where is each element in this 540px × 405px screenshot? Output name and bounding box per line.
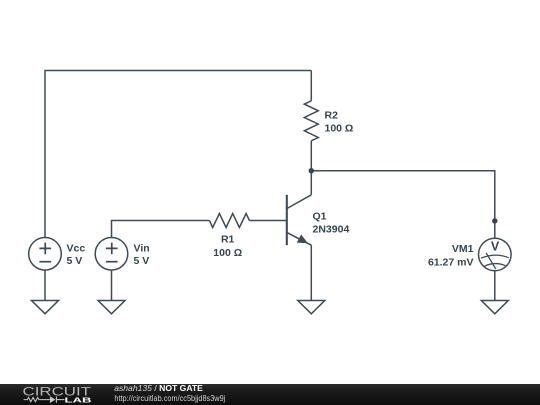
wire R1 to Q1 base	[249, 220, 286, 222]
node junction dot at collector/output	[309, 168, 314, 173]
resistor R2	[304, 101, 318, 141]
svg-text:5 V: 5 V	[67, 255, 83, 267]
wire output node to voltmeter	[311, 171, 495, 238]
ground (emitter)	[298, 301, 325, 314]
wire Vin bottom lead	[111, 270, 113, 300]
svg-text:VM1: VM1	[452, 243, 474, 255]
wire VM1 bottom lead	[494, 271, 496, 301]
wire Vin top lead	[112, 221, 210, 238]
svg-text:5 V: 5 V	[134, 255, 150, 267]
wire top rail from Vcc to R2 column	[45, 71, 311, 238]
voltage source Vcc	[29, 238, 62, 271]
wire R2 bottom to collector	[310, 141, 312, 195]
wire R2 top lead	[310, 71, 312, 101]
svg-text:2N3904: 2N3904	[313, 223, 350, 235]
ground (Vin)	[98, 301, 125, 314]
node dot voltmeter plus terminal	[492, 218, 497, 223]
svg-text:100 Ω: 100 Ω	[213, 247, 242, 259]
footer black bar	[0, 384, 540, 405]
svg-text:100 Ω: 100 Ω	[325, 123, 354, 135]
CircuitLab logo resistor-diode glyph	[24, 396, 65, 402]
resistor R1	[209, 214, 249, 228]
voltmeter VM1	[479, 238, 512, 271]
svg-text:Q1: Q1	[313, 210, 327, 222]
svg-text:ashah135 / NOT GATE: ashah135 / NOT GATE	[114, 383, 203, 393]
svg-text:Vcc: Vcc	[67, 242, 86, 254]
voltage source Vin	[95, 238, 128, 271]
svg-text:R2: R2	[325, 109, 339, 121]
svg-text:61.27 mV: 61.27 mV	[428, 257, 474, 269]
transistor Q1	[287, 195, 312, 245]
svg-text:http://circuitlab.com/cc5bjjd8: http://circuitlab.com/cc5bjjd8s3w9j	[114, 393, 225, 403]
svg-text:V: V	[491, 239, 500, 253]
wire Vcc bottom lead	[44, 270, 46, 300]
svg-text:LAB: LAB	[65, 395, 92, 404]
ground (Vcc)	[32, 301, 59, 314]
svg-text:R1: R1	[221, 234, 235, 246]
svg-text:Vin: Vin	[134, 242, 150, 254]
ground (VM1)	[481, 301, 508, 314]
wire Q1 emitter to ground	[310, 245, 312, 300]
